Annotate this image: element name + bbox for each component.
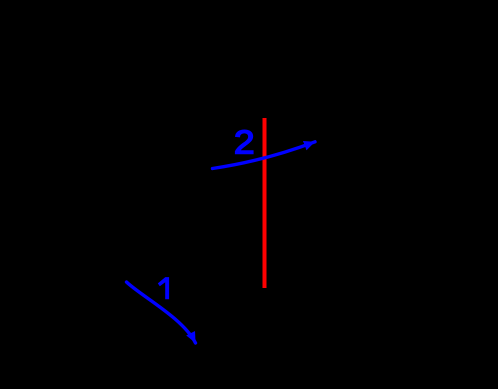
svg-text:2: 2	[234, 124, 255, 161]
